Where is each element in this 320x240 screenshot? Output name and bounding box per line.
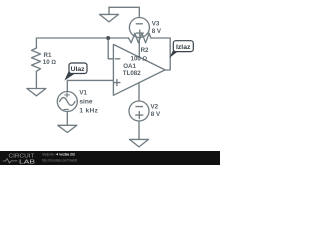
svg-text:LAB: LAB [19,159,36,165]
svg-text:http://circuitlab.com/7mab3l: http://circuitlab.com/7mab3l [42,158,77,162]
resistor R2 [129,33,151,43]
svg-text:V2: V2 [151,104,159,111]
flag Izlaz [169,41,193,58]
svg-text:100 Ω: 100 Ω [131,55,148,62]
svg-text:mladjomilo /: mladjomilo / [42,153,56,157]
svg-text:V3: V3 [152,21,160,28]
wire [138,38,140,58]
voltage source V2 [129,101,149,121]
voltage source V3 [129,18,149,38]
wire [35,71,37,88]
wire [109,7,139,17]
svg-text:Izlaz: Izlaz [176,44,191,51]
node junction [106,36,110,40]
wire [67,80,113,91]
ground [27,89,46,96]
resistor R1 [32,48,41,71]
wire [151,38,170,70]
wire [66,112,68,126]
ground [130,139,149,147]
ground [58,125,77,132]
svg-text:4 vezba 2/2: 4 vezba 2/2 [56,153,75,157]
op-amp OA1 [113,44,165,95]
flag Ulaz [64,63,87,81]
wire [138,83,140,101]
svg-text:V1: V1 [79,90,87,97]
svg-text:TL082: TL082 [123,70,141,77]
wire [108,38,113,59]
svg-text:OA1: OA1 [123,63,136,70]
svg-text:R2: R2 [141,47,149,54]
svg-text:10 Ω: 10 Ω [43,59,57,66]
watermark bar [0,151,220,165]
svg-text:1 kHz: 1 kHz [79,108,98,115]
svg-text:8 V: 8 V [152,28,162,35]
wire [36,38,128,48]
wire [138,121,140,139]
ground [100,7,119,22]
svg-text:sine: sine [79,99,93,106]
svg-text:8 V: 8 V [151,111,161,118]
svg-text:Ulaz: Ulaz [71,66,86,73]
voltage source V1 [57,92,77,112]
